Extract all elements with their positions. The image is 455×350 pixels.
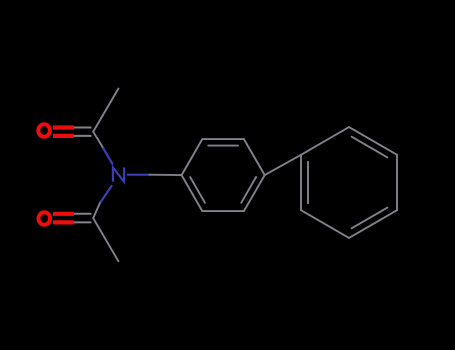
wire ring2 double bond	[352, 137, 388, 158]
wire ring1 edge UR-para	[244, 139, 265, 175]
wire top C=O line2 O-half (red)	[53, 134, 74, 138]
wire N-C(=O) top bond, C half	[93, 132, 102, 147]
wire ring1 top edge	[202, 138, 244, 140]
wire ring2 double bond	[307, 162, 309, 203]
wire ring2 edge B-C	[349, 127, 397, 155]
wire ring2 double bond	[352, 208, 388, 229]
wire ring1 double bond lower-right	[241, 177, 256, 203]
wire ring2 edge A-B	[301, 127, 349, 155]
wire N-C(=O) bottom bond, C half	[93, 203, 100, 218]
wire bottom C=O line2 C-half	[74, 221, 92, 223]
wire acetyl methyl top	[93, 89, 118, 132]
wire ring1 edge para-DR	[244, 175, 265, 211]
wire N-C(=O) top bond, N half (blue)	[102, 147, 112, 164]
wire ring2 edge D-E	[349, 210, 397, 238]
wire ring2 edge E-F	[301, 210, 349, 238]
wire ring1 double bond top	[208, 145, 238, 147]
wire top C=O line1 O-half (red)	[53, 125, 74, 129]
wire ring1 edge ipso-UL	[182, 139, 203, 175]
wire N-aryl bond, C half	[150, 174, 182, 176]
wire acetyl methyl bottom	[93, 218, 118, 261]
wire ring1 edge DL-ipso	[182, 175, 203, 211]
atom label O2 (bottom carbonyl oxygen)	[39, 212, 51, 225]
wire ring1 double bond lower-left	[190, 177, 205, 203]
wire ring1 bottom edge	[202, 210, 244, 212]
atom label O1 (top carbonyl oxygen)	[38, 124, 50, 137]
wire ring2 edge F-A	[300, 155, 302, 210]
wire bottom C=O line2 O-half (red)	[53, 220, 74, 224]
atom label N (imide nitrogen)	[113, 167, 124, 181]
wire top C=O line2 C-half	[74, 135, 92, 137]
wire ring2 edge C-D	[396, 155, 398, 210]
wire N-aryl bond, N half (blue)	[128, 174, 150, 176]
wire bottom C=O line1 C-half	[74, 213, 92, 215]
wire bottom C=O line1 O-half (red)	[53, 212, 74, 216]
wire top C=O line1 C-half	[74, 127, 92, 129]
wire biphenyl inter-ring bond	[265, 155, 301, 175]
wire N-C(=O) bottom bond, N half (blue)	[100, 186, 112, 203]
